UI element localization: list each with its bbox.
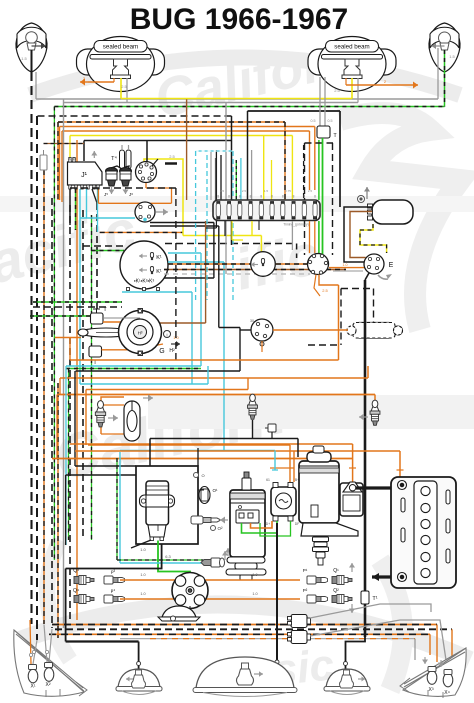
svg-text:Q²: Q² bbox=[333, 588, 339, 594]
svg-text:2.5: 2.5 bbox=[334, 88, 340, 93]
svg-text:8: 8 bbox=[228, 195, 230, 199]
svg-text:i: i bbox=[167, 332, 168, 337]
svg-text:E: E bbox=[389, 262, 394, 269]
svg-text:X²: X² bbox=[46, 682, 51, 688]
svg-text:1.0: 1.0 bbox=[140, 592, 145, 596]
svg-text:J⁵: J⁵ bbox=[104, 192, 108, 197]
svg-text:X⁴: X⁴ bbox=[444, 690, 449, 696]
svg-text:1.5: 1.5 bbox=[264, 189, 269, 193]
svg-text:1.0: 1.0 bbox=[343, 263, 348, 267]
svg-text:T¹: T¹ bbox=[372, 596, 377, 602]
svg-text:T⁴: T⁴ bbox=[111, 155, 117, 162]
svg-text:2.5: 2.5 bbox=[169, 154, 175, 159]
svg-text:J¹: J¹ bbox=[81, 172, 88, 179]
svg-text:8: 8 bbox=[271, 195, 273, 199]
svg-text:2.5: 2.5 bbox=[220, 189, 225, 193]
svg-text:1.0: 1.0 bbox=[140, 573, 145, 577]
svg-text:H²: H² bbox=[169, 348, 175, 354]
svg-text:6.3: 6.3 bbox=[165, 554, 171, 559]
svg-text:1.5: 1.5 bbox=[21, 56, 27, 61]
svg-text:8: 8 bbox=[303, 195, 305, 199]
svg-text:1.0: 1.0 bbox=[252, 592, 257, 596]
svg-text:1.5: 1.5 bbox=[449, 54, 455, 59]
svg-text:Q⁴: Q⁴ bbox=[73, 588, 79, 594]
svg-text:J⁶: J⁶ bbox=[129, 192, 133, 197]
svg-text:8: 8 bbox=[282, 195, 284, 199]
svg-text:sealed beam: sealed beam bbox=[103, 44, 138, 51]
svg-text:O: O bbox=[201, 473, 204, 478]
svg-text:2.5: 2.5 bbox=[121, 84, 127, 89]
svg-text:G: G bbox=[159, 348, 164, 355]
svg-text:8: 8 bbox=[314, 195, 316, 199]
svg-text:30 15: 30 15 bbox=[68, 157, 77, 161]
svg-text:O¹: O¹ bbox=[213, 488, 219, 493]
svg-text:0.5: 0.5 bbox=[311, 119, 316, 123]
svg-text:8: 8 bbox=[217, 195, 219, 199]
svg-text:▪K¹▪K²▪K³: ▪K¹▪K²▪K³ bbox=[134, 279, 155, 285]
svg-text:sealed beam: sealed beam bbox=[334, 44, 369, 51]
svg-text:8: 8 bbox=[293, 195, 295, 199]
svg-text:DF: DF bbox=[295, 522, 300, 526]
svg-text:p⁴: p⁴ bbox=[111, 588, 116, 593]
svg-text:D+: D+ bbox=[266, 522, 270, 526]
svg-text:30: 30 bbox=[250, 319, 254, 323]
svg-text:2.5: 2.5 bbox=[322, 288, 328, 293]
svg-text:K¹: K¹ bbox=[156, 255, 162, 261]
svg-text:X³: X³ bbox=[429, 687, 434, 693]
svg-text:O²: O² bbox=[218, 526, 224, 531]
svg-text:2.5: 2.5 bbox=[308, 189, 313, 193]
svg-text:P²: P² bbox=[303, 588, 308, 593]
svg-text:K¹: K¹ bbox=[156, 269, 162, 275]
svg-text:H³: H³ bbox=[138, 331, 143, 336]
svg-text:0.5: 0.5 bbox=[328, 119, 333, 123]
svg-text:1.0: 1.0 bbox=[140, 547, 146, 552]
svg-text:61: 61 bbox=[266, 478, 270, 482]
svg-text:Q¹: Q¹ bbox=[333, 568, 339, 574]
svg-text:P¹: P¹ bbox=[303, 568, 308, 573]
svg-text:0.75: 0.75 bbox=[285, 189, 291, 193]
svg-text:Timing_(primary): Timing_(primary) bbox=[283, 223, 309, 227]
svg-text:p³: p³ bbox=[111, 569, 116, 574]
svg-text:1.0: 1.0 bbox=[252, 573, 257, 577]
svg-text:X¹: X¹ bbox=[31, 684, 36, 690]
svg-text:8: 8 bbox=[239, 195, 241, 199]
svg-text:2.5: 2.5 bbox=[242, 189, 247, 193]
svg-text:BUG 1966-1967: BUG 1966-1967 bbox=[130, 3, 348, 36]
svg-text:8: 8 bbox=[260, 195, 262, 199]
svg-text:8: 8 bbox=[250, 195, 252, 199]
